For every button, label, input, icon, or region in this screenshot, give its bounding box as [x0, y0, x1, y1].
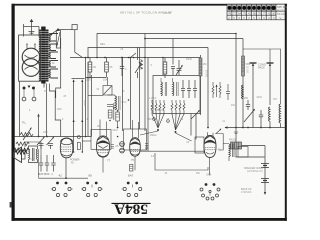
wire bus y136: [15, 136, 92, 138]
wire coil top: [108, 94, 116, 96]
ground terminal GND: [267, 63, 274, 105]
resistor bank group A: [149, 97, 165, 115]
svg-text:104: 104: [103, 78, 108, 82]
oscillator trimmer box: [103, 77, 112, 95]
capacitor C14: [244, 97, 250, 110]
rectifier tube V5 enclosure box: [19, 35, 41, 81]
wire V2 bottom lead: [134, 156, 136, 170]
resistor R4 vertical hatched: [163, 58, 167, 79]
svg-text:25,000: 25,000: [246, 66, 248, 74]
socket diagram 78: [200, 183, 220, 200]
resistor R11 dark wirewound: [14, 148, 29, 154]
transformer T1 laminated core: [39, 27, 49, 84]
trimmer arrow C6: [176, 60, 183, 75]
svg-text:50,000: 50,000: [205, 70, 207, 78]
left audio section: [14, 114, 92, 180]
svg-text:42: 42: [59, 174, 63, 178]
tuning condenser arrow: [244, 109, 255, 122]
oscillator coil L7: [243, 49, 281, 128]
output tube V4: [60, 138, 73, 158]
svg-text:CHASSIS: CHASSIS: [241, 191, 252, 194]
wire transformer right drop: [46, 84, 60, 137]
wire x236 drop: [235, 128, 237, 143]
svg-text:V.C.: V.C.: [30, 159, 35, 161]
wire bottom bus left: [39, 177, 89, 179]
trimmer capacitor arrow 1: [37, 136, 45, 149]
switch arm mid: [131, 53, 137, 58]
wire long vertical x243: [242, 39, 244, 128]
wire V2 top leads: [133, 120, 139, 138]
wire speaker top: [25, 142, 41, 155]
border frame left: [12, 4, 15, 221]
upper middle bus network: [70, 34, 243, 153]
capacitor C5 hanging: [120, 58, 127, 77]
svg-text:50M: 50M: [147, 119, 152, 121]
svg-text:4.2.LH: 4.2.LH: [163, 11, 171, 15]
resistor R10 zigzag: [16, 142, 29, 146]
border frame right: [285, 4, 287, 221]
line cord capacitors above transformer: [24, 20, 40, 37]
wire resistor bottoms y77: [86, 77, 107, 79]
svg-text:77: 77: [107, 159, 110, 163]
gang capacitor arrows: [72, 79, 92, 153]
svg-text:8MF: 8MF: [38, 172, 44, 176]
svg-text:SPK RD: SPK RD: [277, 5, 287, 9]
svg-text:78: 78: [258, 11, 262, 15]
filter capacitor C21: [44, 155, 50, 176]
grid components above V1: [107, 103, 119, 121]
svg-text:P.L.: P.L.: [22, 121, 27, 125]
svg-text:8MF: 8MF: [44, 172, 50, 176]
wire x270 top corner: [208, 48, 270, 64]
svg-text:6A7: 6A7: [128, 174, 134, 178]
svg-text:50M: 50M: [246, 63, 251, 66]
trimmer caps in box: [182, 80, 184, 88]
power switch S1: [46, 29, 72, 35]
junction dots on y136: [38, 136, 40, 138]
svg-text:42: 42: [268, 11, 272, 15]
filter capacitor C20: [38, 155, 44, 176]
volume control R9: [20, 127, 33, 140]
diode arrow near V3: [216, 130, 221, 134]
tube V3 42 output: [195, 136, 216, 158]
speaker field coil L8: [229, 139, 242, 150]
coil bumps on x243: [242, 85, 244, 99]
svg-text:1 2 3 4: 1 2 3 4: [149, 97, 157, 100]
capacitor C15: [259, 110, 263, 128]
resistor bank above tubes: [140, 97, 200, 141]
wire V1 top leads: [100, 120, 107, 137]
antenna coil L6: [269, 107, 271, 128]
wire feeds into box: [163, 39, 173, 76]
IF coil L4: [173, 82, 174, 96]
svg-text:42: 42: [248, 11, 252, 15]
svg-text:OSC: OSC: [83, 100, 87, 106]
wire B+ bus y57: [70, 57, 200, 59]
svg-text:(LOOKING AT): (LOOKING AT): [247, 170, 263, 173]
oscillator coil L2: [115, 95, 127, 110]
svg-text:PACK: PACK: [258, 66, 265, 70]
tube voltage table: [227, 4, 287, 20]
transformer secondary windings: [49, 34, 58, 79]
wire V1 bottom lead: [102, 157, 104, 172]
cell symbol B1: [261, 164, 269, 168]
tube V1 78: [91, 130, 114, 158]
fuse box F1: [56, 31, 60, 49]
resistor R12 mid: [212, 82, 221, 98]
wire bus y47: [133, 47, 208, 49]
right hand section: [88, 34, 285, 196]
speaker SP1 cone: [14, 147, 26, 163]
output transformer T3 right of V3: [229, 144, 234, 158]
svg-text:80: 80: [253, 11, 257, 15]
secondary box T3: [238, 147, 248, 158]
svg-text:77: 77: [233, 11, 237, 15]
rectifier tube V5: [22, 44, 40, 76]
IF coil L3: [161, 82, 162, 96]
wire merge to tubes: [140, 131, 192, 141]
output transformer T2: [29, 146, 38, 163]
svg-text:250M: 250M: [186, 59, 192, 61]
wire bottom arrow: [264, 192, 266, 195]
svg-text:MEG: MEG: [100, 44, 105, 46]
socket diagram V4: [51, 182, 73, 197]
svg-text:75: 75: [243, 11, 247, 15]
svg-text:80: 80: [89, 174, 93, 178]
socket diagram 80: [81, 182, 103, 197]
antenna terminal ANT: [250, 63, 257, 128]
svg-text:5V: 5V: [44, 91, 47, 93]
tube V2 78: [124, 129, 147, 156]
wire filament loop: [140, 150, 205, 152]
wire y47 left extension: [88, 48, 133, 58]
wire long left vertical: [19, 81, 21, 137]
junction dots bus y57: [85, 33, 244, 138]
socket diagram 6A7: [122, 182, 142, 197]
svg-text:.0001: .0001: [112, 130, 118, 132]
resistor R2 hanging: [103, 58, 113, 82]
filament socket pins below transformer: [22, 86, 36, 101]
grid circle taps: [153, 118, 156, 121]
wire column verticals mid: [123, 48, 149, 152]
junction dots bus: [87, 57, 89, 59]
capacitor C16 mid: [226, 84, 230, 100]
wire V3 top leads: [208, 132, 214, 136]
middle tube row: [91, 120, 221, 176]
coupling capacitors C10 C11 between V1 V2: [115, 142, 149, 153]
cell symbol B2: [261, 179, 269, 183]
svg-text:250: 250: [244, 97, 249, 100]
trimmer arrow mid: [191, 110, 200, 119]
detector transformer box: [153, 76, 200, 114]
power transformer T1 section: [19, 20, 83, 137]
svg-text:42: 42: [218, 148, 221, 152]
border frame top: [12, 4, 288, 6]
svg-text:78: 78: [228, 11, 232, 15]
svg-text:OO: OO: [207, 173, 212, 177]
resistor R5 small: [116, 110, 120, 128]
resistor R6 on x200: [199, 55, 206, 115]
ground tick: [234, 132, 238, 134]
volume pot R3 with arrow: [135, 48, 143, 79]
wire arrow to bus: [37, 114, 39, 137]
svg-text:1M: 1M: [180, 119, 183, 121]
merge Y wires left: [152, 114, 164, 128]
junction dots AVC bus: [235, 127, 237, 129]
svg-text:35T: 35T: [273, 99, 278, 101]
wire long vertical x208: [207, 48, 209, 128]
svg-text:75: 75: [131, 158, 134, 162]
svg-text:2M: 2M: [203, 63, 206, 66]
trimmer capacitor arrow 2: [47, 136, 55, 149]
svg-text:6A: 6A: [238, 11, 242, 15]
filter capacitor C22: [51, 155, 56, 176]
svg-text:2MEG: 2MEG: [150, 135, 157, 137]
wire V3 plate to T3: [215, 134, 223, 151]
wire V3 bottom lead: [209, 158, 211, 176]
svg-text:.0002: .0002: [256, 97, 262, 99]
wire to trimmer box: [88, 95, 103, 97]
svg-text:10M: 10M: [43, 132, 48, 134]
svg-text:FIELD: FIELD: [229, 139, 236, 142]
wire y133 to coil: [223, 144, 236, 162]
resistor R1 hanging: [86, 58, 96, 82]
svg-text:80: 80: [273, 11, 277, 15]
wire outer loop y33: [97, 34, 236, 128]
model number 584A rotated: [112, 201, 151, 218]
wire bus arrow left end: [225, 126, 228, 128]
resistor under V2: [130, 165, 133, 172]
svg-text:6.3V: 6.3V: [151, 156, 156, 158]
resistor bank group B: [171, 100, 185, 115]
scattered value labels: [29, 44, 278, 175]
bottom socket diagrams: [51, 173, 220, 201]
wire field to right vertical: [236, 146, 265, 158]
svg-text:77: 77: [263, 11, 267, 15]
wire tube V4 leads: [65, 158, 67, 178]
capacitor C7: [171, 67, 175, 76]
wire bus y38: [145, 38, 243, 40]
svg-text:MV EST: MV EST: [277, 9, 287, 13]
svg-text:20M: 20M: [57, 109, 62, 111]
junction dots mid: [117, 110, 119, 112]
svg-text:V: V: [279, 16, 281, 20]
border frame bottom: [12, 218, 287, 221]
wire switch drop diagonal: [82, 57, 84, 59]
resistor R7 on x243: [242, 56, 251, 76]
wire AVC bus y127: [225, 127, 285, 129]
merge Y wires right: [172, 114, 184, 130]
wire verticals left group: [86, 58, 92, 137]
